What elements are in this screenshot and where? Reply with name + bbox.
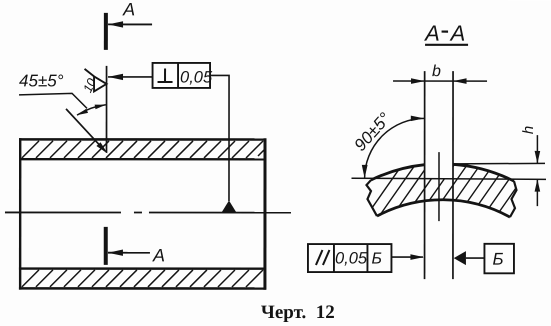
svg-text:A: A (152, 245, 165, 265)
tube left edge (19, 138, 21, 289)
crescent wall section outline top arc left part (371, 165, 425, 180)
perpendicularity symbol (158, 68, 173, 82)
label A bottom (152, 245, 165, 265)
caption Черт. 12 (261, 302, 335, 323)
section mark A bottom arrow (108, 250, 150, 256)
svg-text:10: 10 (80, 76, 99, 95)
svg-text:Черт. 12: Черт. 12 (261, 302, 335, 323)
tube centerline axis (5, 211, 291, 213)
section mark A top thick stroke (104, 13, 108, 50)
datum triangle on axis (221, 200, 236, 212)
crescent top arc right part (453, 164, 514, 181)
datum Б connector (466, 257, 485, 259)
reference surface line (351, 178, 546, 179)
label 45±5° (19, 71, 64, 90)
svg-text:0,05: 0,05 (180, 68, 213, 86)
crescent hatch (360, 165, 532, 225)
parallelism symbol (316, 250, 330, 265)
svg-text:A: A (122, 0, 135, 19)
tolerance value 0,05 (180, 68, 213, 86)
datum Б label (492, 250, 503, 269)
h upper extension line (455, 162, 545, 165)
svg-text:A: A (423, 21, 440, 46)
tube inner bore bottom line (19, 267, 266, 270)
svg-text:45±5°: 45±5° (19, 71, 64, 90)
slot center line (438, 152, 440, 221)
hole axis extension line (106, 66, 108, 153)
leader 45 deg (19, 93, 87, 108)
tolerance frame perpendicularity (153, 63, 211, 88)
svg-text:Б: Б (492, 250, 503, 269)
label b (432, 63, 441, 80)
tolerance frame parallelism (308, 244, 392, 272)
surface roughness symbol (85, 69, 107, 92)
hatch top band (22, 141, 264, 158)
tube right edge (263, 138, 266, 289)
label A top (122, 0, 135, 19)
section title A-A (423, 21, 468, 46)
datum Б triangle (454, 251, 466, 265)
crescent left broken end (366, 180, 377, 216)
tube outer bottom edge (19, 287, 266, 290)
crescent bottom arc (377, 200, 510, 217)
tube inner bore top line (19, 158, 266, 161)
label 90±5° (350, 109, 394, 155)
svg-text:h: h (520, 126, 537, 134)
svg-text:0,05: 0,05 (335, 250, 368, 268)
crescent right broken end (510, 181, 517, 217)
svg-text:b: b (432, 63, 441, 80)
slot angle arc 90 deg (362, 116, 425, 179)
label h (520, 126, 537, 134)
dimension b line and arrows (393, 78, 487, 84)
leader parallelism frame to slot (391, 254, 424, 260)
section mark A bottom thick stroke (104, 227, 108, 265)
slot right edge line (452, 71, 454, 279)
tube outer top edge (19, 138, 266, 141)
parallelism datum ref Б (371, 251, 381, 268)
hatch bottom band (22, 270, 263, 287)
dimension h arrows (535, 135, 541, 206)
chamfer edge line with arrow (66, 109, 108, 154)
slot left edge line (424, 71, 426, 279)
svg-text:Б: Б (371, 251, 381, 268)
label 10 roughness value (80, 76, 99, 95)
svg-text:A: A (449, 21, 466, 46)
section mark A top arrow (108, 21, 152, 27)
parallelism value 0,05 (335, 250, 368, 268)
chamfer angle dimension arc 45 deg (77, 105, 106, 116)
datum Б box (484, 244, 514, 274)
connector frame to datum (210, 75, 229, 201)
leader from frame to surface (108, 74, 153, 80)
